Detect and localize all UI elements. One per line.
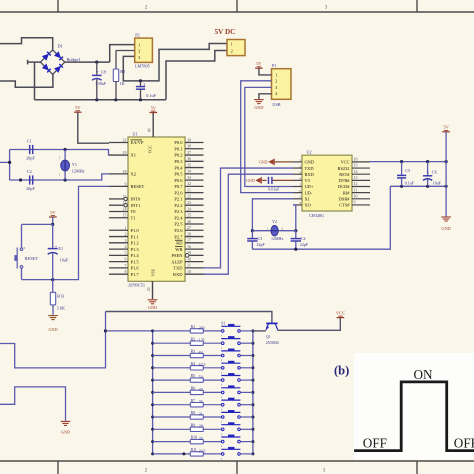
svg-text:DSR#: DSR# — [339, 197, 351, 202]
svg-text:TXD: TXD — [305, 166, 314, 171]
capacitor E1 — [48, 224, 69, 279]
power 5V P1 — [255, 61, 263, 68]
U1 pin 32 P0.7 — [174, 181, 203, 189]
ground port U2 GND pin1 — [259, 159, 293, 165]
svg-text:VSS: VSS — [151, 269, 156, 276]
wire X1 rail — [10, 150, 109, 156]
junction — [426, 160, 429, 163]
wire reset top — [22, 224, 53, 248]
wire left stub — [0, 161, 10, 163]
U2 pin 14 RST# — [339, 169, 370, 177]
svg-text:T1: T1 — [131, 215, 136, 220]
svg-text:Q1: Q1 — [266, 334, 271, 339]
svg-text:R2: R2 — [191, 337, 196, 341]
U1 pin 24 P2.3 — [174, 206, 203, 214]
junction right row9 — [251, 428, 254, 431]
resistor R10 — [153, 436, 222, 444]
junction — [8, 161, 11, 164]
connector 5V DC — [215, 28, 246, 55]
junction right row3 — [251, 354, 254, 357]
U1 pin 6 P1.5 — [109, 257, 139, 265]
svg-text:s: s — [221, 421, 222, 424]
U1 VSS pin 20 — [147, 281, 153, 299]
svg-text:P0.2: P0.2 — [174, 153, 182, 158]
svg-text:GND: GND — [61, 429, 70, 434]
svg-text:7: 7 — [125, 263, 127, 268]
svg-text:X1: X1 — [305, 197, 310, 202]
junction — [64, 148, 67, 151]
ground R13 — [48, 316, 58, 332]
svg-text:9: 9 — [125, 181, 127, 186]
junction — [251, 229, 254, 232]
svg-text:29: 29 — [187, 250, 191, 255]
svg-text:s: s — [221, 445, 222, 448]
U1 pin 11 TXD — [173, 263, 203, 271]
svg-text:26: 26 — [187, 219, 191, 224]
svg-text:1: 1 — [138, 42, 140, 47]
U1 pin 39 P0.0 — [174, 137, 203, 145]
svg-text:RI#: RI# — [343, 190, 350, 195]
junction — [95, 61, 98, 64]
svg-text:2N3004: 2N3004 — [266, 340, 279, 345]
svg-text:RD: RD — [176, 241, 183, 246]
svg-text:WR: WR — [175, 247, 182, 252]
svg-text:X2: X2 — [131, 172, 137, 177]
switch row4 — [221, 361, 253, 374]
svg-text:30: 30 — [187, 256, 191, 261]
junction — [51, 278, 54, 281]
svg-text:RESET: RESET — [131, 184, 145, 189]
svg-text:GND: GND — [148, 305, 157, 310]
wire XO U2 — [293, 205, 296, 231]
svg-text:GND: GND — [305, 160, 315, 165]
svg-text:P0.1: P0.1 — [174, 146, 182, 151]
ground right — [441, 217, 451, 231]
transistor Q1 — [266, 323, 279, 345]
U1 pin 19 X1 — [109, 150, 136, 158]
svg-text:P1.2: P1.2 — [131, 241, 139, 246]
svg-text:2: 2 — [138, 49, 140, 54]
U1 pin 13 INT1 — [109, 200, 140, 208]
U1 pin 31 EA/VP — [109, 138, 144, 146]
svg-text:P2.1: P2.1 — [174, 197, 182, 202]
wire 5VDC pin2 — [166, 51, 227, 100]
svg-text:16: 16 — [187, 244, 191, 249]
wire VCC rail — [370, 161, 446, 163]
svg-text:PSEN: PSEN — [171, 253, 183, 258]
wire 5V to node — [52, 217, 54, 224]
svg-text:R11: R11 — [191, 448, 197, 452]
svg-text:13: 13 — [354, 175, 358, 180]
svg-text:36: 36 — [199, 400, 203, 404]
svg-text:14: 14 — [354, 169, 358, 174]
svg-text:2: 2 — [281, 226, 283, 230]
svg-text:D1: D1 — [58, 44, 63, 49]
connector P1 USB — [272, 63, 292, 107]
svg-text:OFF: OFF — [454, 436, 474, 451]
svg-text:USB: USB — [272, 102, 280, 107]
svg-text:0.01uF: 0.01uF — [268, 186, 280, 191]
ground U1 VSS — [148, 300, 158, 310]
svg-text:VCC: VCC — [340, 160, 349, 165]
svg-text:s: s — [221, 347, 222, 350]
resistor R9 — [153, 423, 222, 431]
capacitor C5 — [397, 162, 415, 187]
svg-text:P1.1: P1.1 — [131, 234, 139, 239]
svg-text:3: 3 — [143, 83, 145, 87]
wire crystal ground rail — [252, 186, 390, 249]
svg-text:P2.0: P2.0 — [174, 190, 183, 195]
label OFF right — [454, 436, 474, 451]
svg-text:Y1: Y1 — [72, 162, 77, 167]
switch row10 — [221, 435, 253, 448]
svg-text:U2: U2 — [307, 150, 312, 155]
svg-text:Bridge1: Bridge1 — [67, 57, 81, 62]
svg-text:P2.3: P2.3 — [174, 209, 183, 214]
capacitor C2 — [26, 169, 35, 191]
resistor R4 — [153, 362, 222, 370]
svg-text:1: 1 — [275, 72, 277, 77]
svg-text:s: s — [221, 433, 222, 436]
svg-text:P0.0: P0.0 — [174, 140, 183, 145]
wire RESET net — [53, 186, 109, 279]
svg-text:31: 31 — [123, 138, 127, 143]
svg-text:s: s — [221, 384, 222, 387]
svg-text:5V: 5V — [256, 61, 262, 66]
bridge rectifier D1 — [40, 44, 80, 75]
svg-text:CTS#: CTS# — [339, 203, 350, 208]
junction right row8 — [251, 416, 254, 419]
svg-text:P1: P1 — [272, 63, 276, 68]
U2 pin 11 RI# — [343, 187, 370, 195]
U1 pin 1 P1.0 — [109, 225, 139, 233]
power 5V reset — [49, 210, 57, 217]
svg-text:XO: XO — [305, 203, 311, 208]
svg-text:INT1: INT1 — [131, 203, 141, 208]
svg-text:35: 35 — [187, 162, 191, 167]
svg-text:ALEP: ALEP — [171, 259, 183, 264]
svg-text:P0.3: P0.3 — [174, 159, 183, 164]
wire P1 pin4 — [259, 94, 272, 99]
junction — [114, 98, 117, 101]
wire bridge negative output — [28, 60, 41, 100]
U1 pin 3 P1.2 — [109, 238, 139, 246]
svg-text:31: 31 — [199, 412, 203, 416]
wire Q1 collector to VCC — [278, 318, 340, 331]
junction right row1 — [251, 329, 254, 332]
junction — [294, 248, 297, 251]
switch row8 — [221, 410, 253, 423]
svg-text:3: 3 — [138, 55, 140, 60]
junction — [400, 185, 403, 188]
U1 pin 16 WR — [175, 244, 204, 252]
wire ladder left bus — [152, 331, 154, 454]
svg-text:39: 39 — [187, 137, 191, 142]
wire ladder gnd — [0, 387, 66, 421]
svg-text:E1: E1 — [58, 246, 63, 251]
svg-text:2: 2 — [125, 232, 127, 237]
U1 pin 30 ALEP — [171, 256, 203, 264]
U1 pin 27 P2.6 — [174, 225, 203, 233]
wire P1 pin3 USB D+ — [245, 87, 293, 186]
U1 pin 18 X2 — [109, 169, 136, 177]
svg-text:10uF: 10uF — [433, 181, 442, 186]
svg-text:s: s — [221, 458, 222, 461]
U1 pin 15 T1 — [109, 213, 136, 221]
svg-text:CH340G: CH340G — [309, 213, 324, 218]
capacitor C4 22pF — [291, 231, 309, 250]
U1 pin 22 P2.1 — [174, 194, 203, 202]
svg-text:R8: R8 — [191, 411, 196, 415]
junction right row5 — [251, 379, 254, 382]
svg-text:250: 250 — [199, 326, 205, 330]
U1 pin 10 RXD — [173, 269, 204, 277]
U1 pin 28 P2.7 — [174, 231, 203, 239]
svg-text:P1.0: P1.0 — [131, 228, 140, 233]
U1 pin 23 P2.2 — [174, 200, 203, 208]
svg-text:23: 23 — [187, 200, 191, 205]
svg-text:2: 2 — [231, 49, 233, 54]
U1 pin 2 P1.1 — [109, 232, 139, 240]
wire 5V down — [445, 132, 447, 217]
U1 pin 36 P0.3 — [174, 156, 203, 164]
wire RXD net — [204, 174, 294, 274]
svg-text:0.1uF: 0.1uF — [405, 181, 415, 186]
U2 pin 12 DCD# — [338, 181, 370, 189]
resistor R5 — [153, 374, 222, 382]
svg-text:22.5: 22.5 — [199, 449, 206, 453]
switch row11 — [221, 447, 253, 460]
svg-text:5V: 5V — [151, 105, 157, 110]
svg-text:LM7805: LM7805 — [135, 64, 150, 69]
junction — [139, 98, 142, 101]
power 5V right — [442, 125, 450, 132]
svg-text:25: 25 — [187, 213, 191, 218]
U1 pin 17 RD — [175, 238, 204, 246]
svg-text:(b): (b) — [334, 364, 349, 378]
svg-text:10: 10 — [187, 269, 191, 274]
svg-text:R3: R3 — [191, 350, 196, 354]
U1 pin 8 P1.7 — [109, 269, 139, 277]
junction — [445, 185, 448, 188]
svg-text:P2.4: P2.4 — [174, 215, 183, 220]
svg-text:125: 125 — [199, 339, 205, 343]
svg-text:20pF: 20pF — [26, 156, 35, 161]
svg-text:C2: C2 — [27, 169, 32, 174]
svg-text:18: 18 — [123, 169, 127, 174]
svg-text:C4: C4 — [301, 236, 306, 241]
wire P2 pin1 input — [110, 45, 135, 63]
svg-text:15: 15 — [354, 163, 358, 168]
junction left row2 — [151, 342, 154, 345]
switch RESET — [15, 246, 39, 269]
svg-text:19: 19 — [123, 150, 127, 155]
svg-text:Y2: Y2 — [272, 219, 277, 224]
svg-text:P0.7: P0.7 — [174, 184, 183, 189]
resistor R1 — [153, 325, 222, 333]
junction right row2 — [251, 342, 254, 345]
svg-text:10: 10 — [354, 193, 358, 198]
U2 pin 15 RS232 — [338, 163, 370, 171]
U1 pin 37 P0.2 — [174, 150, 203, 158]
label ON — [414, 367, 434, 382]
wire EA to 5V — [78, 112, 109, 143]
power 5V EA — [74, 105, 82, 112]
junction — [104, 329, 107, 332]
svg-text:C5: C5 — [405, 168, 410, 173]
svg-text:C8: C8 — [101, 69, 106, 74]
svg-text:GND: GND — [246, 178, 255, 183]
svg-text:P1.5: P1.5 — [131, 259, 140, 264]
svg-text:P2.6: P2.6 — [174, 228, 183, 233]
U2 pin 16 VCC — [340, 157, 370, 165]
U2 pin 13 DTR# — [339, 175, 370, 183]
mcu U1 AT89C51 body — [128, 132, 185, 288]
U1 pin 25 P2.4 — [174, 213, 203, 221]
svg-text:4: 4 — [125, 244, 127, 249]
svg-text:P1.3: P1.3 — [131, 247, 140, 252]
svg-text:34: 34 — [187, 169, 191, 174]
svg-text:3: 3 — [125, 238, 127, 243]
svg-text:28: 28 — [199, 425, 203, 429]
ground ladder — [61, 421, 71, 434]
resistor R2 — [153, 337, 222, 345]
svg-text:12MHz: 12MHz — [271, 236, 283, 241]
svg-text:R13: R13 — [57, 293, 64, 298]
ground port U2 V3 — [246, 177, 266, 183]
junction left row8 — [151, 416, 154, 419]
svg-text:6: 6 — [125, 257, 127, 262]
junction right row4 — [251, 366, 254, 369]
capacitor C3 22pF — [247, 231, 265, 250]
junction — [95, 98, 98, 101]
svg-text:R5: R5 — [191, 374, 196, 378]
junction R11 — [182, 452, 185, 455]
crystal Y1 — [59, 150, 85, 181]
svg-text:P2.2: P2.2 — [174, 203, 182, 208]
svg-text:36: 36 — [187, 156, 191, 161]
wire X1 U2 — [252, 199, 293, 231]
wire Q1 base net — [106, 312, 272, 323]
wire bridge positive output — [65, 61, 110, 63]
junction — [51, 223, 54, 226]
svg-text:P2: P2 — [135, 33, 139, 38]
resistor R7 — [153, 399, 222, 407]
svg-text:9: 9 — [354, 200, 356, 205]
svg-text:V3: V3 — [305, 178, 311, 183]
junction — [294, 229, 297, 232]
svg-text:38: 38 — [187, 144, 191, 149]
svg-text:50: 50 — [199, 376, 203, 380]
U1 pin 38 P0.1 — [174, 144, 203, 152]
svg-text:UD+: UD+ — [305, 184, 314, 189]
svg-text:P0.4: P0.4 — [174, 165, 183, 170]
svg-text:P1.4: P1.4 — [131, 253, 140, 258]
U1 pin 21 P2.0 — [174, 187, 203, 195]
svg-text:UD-: UD- — [305, 190, 313, 195]
wire ladder right bus — [252, 331, 254, 454]
resistor R11 — [153, 448, 222, 456]
wire row1 left — [106, 330, 153, 332]
svg-text:P1.6: P1.6 — [131, 266, 140, 271]
svg-text:22: 22 — [187, 194, 191, 199]
usb chip U2 CH340G body — [302, 150, 352, 218]
svg-text:R1: R1 — [191, 325, 196, 329]
svg-text:5.6K: 5.6K — [57, 306, 65, 311]
svg-text:12: 12 — [123, 194, 127, 199]
svg-text:8: 8 — [125, 269, 127, 274]
switch row7 — [221, 398, 253, 411]
junction right row11 — [251, 452, 254, 455]
svg-text:32: 32 — [187, 181, 191, 186]
wire ground rail — [35, 99, 167, 101]
svg-text:+: + — [55, 243, 58, 248]
svg-text:1: 1 — [231, 42, 233, 47]
svg-text:1K: 1K — [120, 81, 125, 86]
junction left row7 — [151, 403, 154, 406]
svg-text:VCC: VCC — [148, 145, 153, 154]
svg-text:DCD#: DCD# — [338, 184, 350, 189]
svg-text:1: 1 — [125, 225, 127, 230]
svg-text:X1: X1 — [131, 153, 137, 158]
U1 pin 33 P0.6 — [174, 175, 203, 183]
svg-text:11: 11 — [187, 263, 191, 268]
capacitor C3 0.1uF — [136, 81, 157, 100]
svg-text:P0.5: P0.5 — [174, 172, 183, 177]
svg-text:P1.7: P1.7 — [131, 272, 140, 277]
power VCC — [336, 310, 345, 317]
svg-text:21: 21 — [187, 187, 191, 192]
crystal Y2 — [252, 219, 295, 241]
U2 pin 7 X1 — [293, 195, 310, 202]
svg-text:16: 16 — [354, 157, 358, 162]
svg-text:s: s — [221, 335, 222, 338]
U1 pin 4 P1.3 — [109, 244, 139, 252]
resistor R3 — [153, 350, 222, 358]
svg-text:24: 24 — [187, 206, 191, 211]
wire left bus — [9, 150, 11, 181]
svg-text:3: 3 — [275, 85, 277, 90]
junction left row10 — [151, 440, 154, 443]
junction left row6 — [151, 391, 154, 394]
waveform panel background — [354, 353, 474, 459]
svg-text:11: 11 — [354, 187, 358, 192]
svg-text:AT89C51: AT89C51 — [128, 282, 145, 287]
svg-text:GND: GND — [254, 105, 263, 110]
svg-text:EA/VP: EA/VP — [131, 140, 144, 145]
label OFF left — [363, 436, 387, 451]
switch row5 — [221, 373, 253, 386]
junction — [139, 79, 142, 82]
svg-text:T0: T0 — [131, 209, 137, 214]
svg-text:C1: C1 — [27, 139, 32, 144]
junction left row11 — [151, 452, 154, 455]
wire ladder feed — [0, 312, 106, 368]
svg-text:ON: ON — [414, 367, 434, 382]
U2 pin 10 DSR# — [339, 193, 370, 201]
U1 pin 35 P0.4 — [174, 162, 203, 170]
svg-text:P0.6: P0.6 — [174, 178, 183, 183]
wire P2 pin3 output — [123, 44, 227, 81]
junction right row7 — [251, 403, 254, 406]
svg-text:20: 20 — [147, 287, 151, 291]
svg-text:15: 15 — [123, 213, 127, 218]
label S1 — [221, 320, 225, 325]
U1 pin 12 INT0 — [109, 194, 141, 202]
svg-text:2: 2 — [275, 78, 277, 83]
resistor R8 — [153, 411, 222, 419]
svg-text:12MHz: 12MHz — [72, 168, 85, 173]
